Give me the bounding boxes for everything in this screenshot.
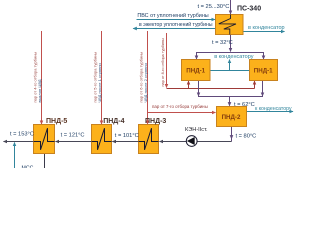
svg-text:ПНД-3: ПНД-3 bbox=[145, 118, 166, 125]
svg-text:ПНД-4: ПНД-4 bbox=[103, 118, 124, 125]
svg-text:t = 80°C: t = 80°C bbox=[236, 134, 257, 140]
svg-text:t = 32°C: t = 32°C bbox=[212, 40, 233, 46]
svg-text:ПНД-2: ПНД-2 bbox=[222, 114, 241, 121]
svg-text:ПНД-1: ПНД-1 bbox=[254, 67, 273, 74]
svg-text:МСС: МСС bbox=[22, 165, 34, 168]
svg-text:к конденсатору: к конденсатору bbox=[255, 106, 292, 112]
svg-text:пар от 7-го отбора турбины: пар от 7-го отбора турбины bbox=[152, 104, 208, 109]
svg-text:t = 62°C: t = 62°C bbox=[234, 102, 255, 108]
svg-text:ПС-340: ПС-340 bbox=[237, 6, 261, 13]
svg-text:ПНД-1: ПНД-1 bbox=[186, 67, 205, 74]
svg-text:ПНД-5: ПНД-5 bbox=[46, 118, 67, 125]
svg-text:ЧВД после 1 ступени: ЧВД после 1 ступени bbox=[97, 63, 102, 102]
svg-text:t = 25...30°C: t = 25...30°C bbox=[198, 4, 230, 10]
svg-text:t = 153°C: t = 153°C bbox=[10, 132, 34, 138]
svg-text:пар от 8-го отбора турбины: пар от 8-го отбора турбины bbox=[161, 38, 165, 86]
svg-text:t = 121°C: t = 121°C bbox=[61, 133, 85, 139]
svg-text:в эжектор уплотнений турбины: в эжектор уплотнений турбины bbox=[139, 21, 213, 28]
svg-text:ПВС от уплотнений турбины: ПВС от уплотнений турбины bbox=[137, 12, 208, 19]
svg-text:в конденсатор: в конденсатор bbox=[248, 25, 285, 31]
svg-text:выхлоп ЦВД: выхлоп ЦВД bbox=[37, 79, 42, 102]
svg-text:ЧВД после 2 ступени: ЧВД после 2 ступени bbox=[143, 63, 148, 102]
svg-text:в конденсатору: в конденсатору bbox=[214, 54, 254, 60]
svg-text:t = 101°C: t = 101°C bbox=[115, 133, 139, 139]
svg-text:КЭН-IIст.: КЭН-IIст. bbox=[185, 127, 208, 133]
